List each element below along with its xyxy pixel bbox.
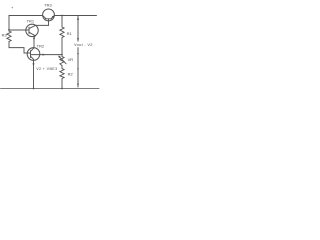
svg-text:TR2: TR2 — [37, 43, 45, 48]
svg-text:R3: R3 — [2, 33, 8, 38]
svg-text:VR: VR — [68, 57, 74, 62]
svg-text:V2 + VBE3: V2 + VBE3 — [36, 67, 57, 71]
svg-text:R1: R1 — [67, 31, 73, 36]
svg-text:Vout - V2: Vout - V2 — [74, 42, 93, 47]
svg-text:TR1: TR1 — [27, 18, 35, 23]
svg-text:R2: R2 — [68, 72, 74, 77]
svg-text:TR3: TR3 — [44, 2, 52, 7]
